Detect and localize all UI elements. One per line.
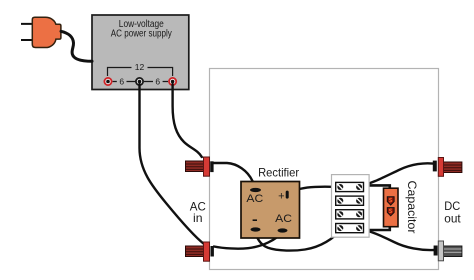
svg-text:6: 6 bbox=[155, 76, 160, 86]
svg-text:AC power supply: AC power supply bbox=[111, 29, 172, 40]
svg-text:Rectifier: Rectifier bbox=[258, 165, 299, 179]
svg-text:out: out bbox=[444, 212, 461, 226]
svg-text:+: + bbox=[278, 190, 284, 202]
svg-text:AC: AC bbox=[275, 213, 292, 225]
svg-text:Capacitor: Capacitor bbox=[405, 181, 419, 234]
svg-text:in: in bbox=[193, 211, 203, 225]
svg-text:6: 6 bbox=[119, 76, 124, 86]
svg-text:12: 12 bbox=[135, 62, 145, 72]
svg-text:AC: AC bbox=[246, 193, 263, 205]
